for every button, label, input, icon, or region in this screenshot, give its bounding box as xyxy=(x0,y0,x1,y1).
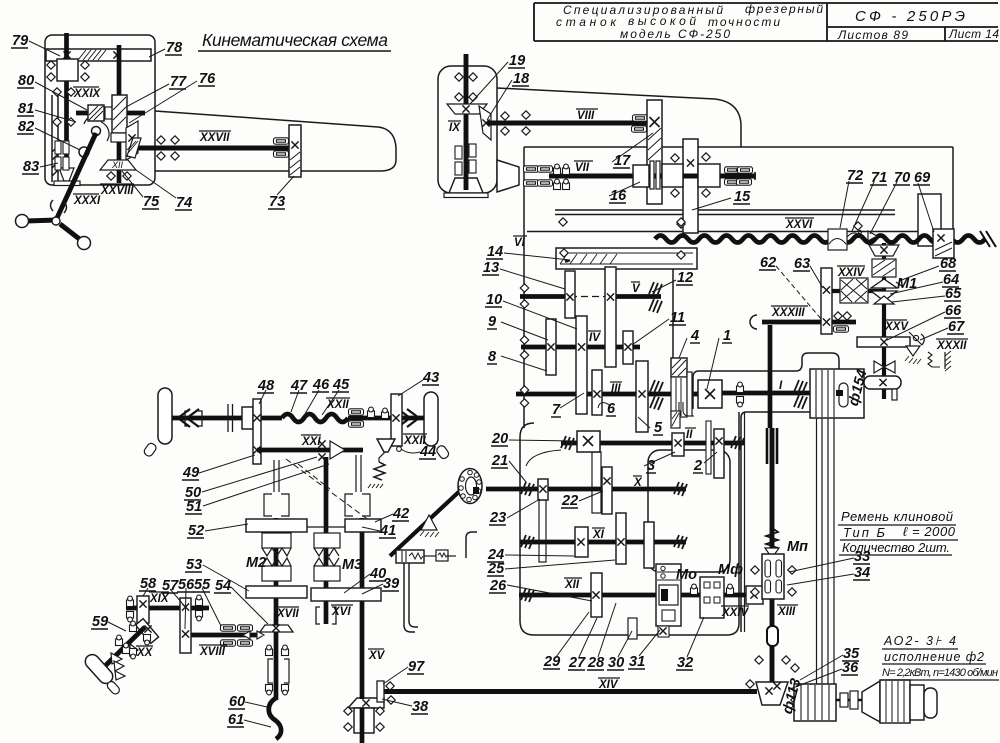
svg-text:XXXIII: XXXIII xyxy=(771,307,805,319)
svg-text:XIV: XIV xyxy=(598,679,619,691)
svg-text:22: 22 xyxy=(561,493,578,509)
svg-text:VI: VI xyxy=(514,237,526,249)
svg-text:XXIV: XXIV xyxy=(837,267,866,279)
svg-text:47: 47 xyxy=(290,378,308,394)
svg-text:97: 97 xyxy=(408,659,425,675)
svg-text:80: 80 xyxy=(18,73,34,89)
svg-text:XI: XI xyxy=(592,529,605,541)
svg-text:28: 28 xyxy=(587,655,605,671)
svg-text:58: 58 xyxy=(140,576,157,592)
svg-text:26: 26 xyxy=(489,578,507,594)
svg-text:Тип Б: Тип Б xyxy=(843,525,886,540)
svg-text:45: 45 xyxy=(332,377,350,393)
svg-text:исполнение ф2: исполнение ф2 xyxy=(884,650,984,664)
svg-text:20: 20 xyxy=(491,431,508,447)
svg-text:66: 66 xyxy=(945,303,962,319)
svg-text:VII: VII xyxy=(575,162,590,174)
svg-text:M3: M3 xyxy=(342,557,362,573)
svg-text:XV: XV xyxy=(368,650,386,662)
svg-text:69: 69 xyxy=(914,170,930,186)
svg-text:11: 11 xyxy=(670,310,685,326)
svg-text:65: 65 xyxy=(945,286,962,302)
svg-text:III: III xyxy=(611,383,621,395)
svg-text:XX: XX xyxy=(136,647,154,659)
svg-text:Лист 14: Лист 14 xyxy=(948,27,999,41)
svg-text:12: 12 xyxy=(677,270,693,286)
svg-text:16: 16 xyxy=(610,188,627,204)
svg-text:XVII: XVII xyxy=(276,608,300,620)
svg-text:18: 18 xyxy=(513,71,530,87)
svg-text:59: 59 xyxy=(92,614,108,630)
svg-text:XXXII: XXXII xyxy=(936,340,967,352)
svg-text:XII: XII xyxy=(111,160,124,170)
svg-text:72: 72 xyxy=(847,168,863,184)
svg-text:XXV: XXV xyxy=(884,321,909,333)
svg-text:XVIII: XVIII xyxy=(199,646,226,658)
svg-text:36: 36 xyxy=(842,660,859,676)
svg-text:4: 4 xyxy=(690,328,699,344)
svg-text:56: 56 xyxy=(178,577,195,593)
svg-text:VIII: VIII xyxy=(577,110,595,122)
svg-text:Количество 2шт.: Количество 2шт. xyxy=(842,540,950,555)
svg-text:ℓ = 2000: ℓ = 2000 xyxy=(903,524,956,539)
svg-text:IX: IX xyxy=(449,122,461,134)
svg-text:70: 70 xyxy=(894,170,910,186)
svg-text:Мф: Мф xyxy=(718,562,743,578)
svg-text:1: 1 xyxy=(723,328,731,344)
svg-text:38: 38 xyxy=(412,699,429,715)
svg-text:XIII: XIII xyxy=(777,606,796,618)
svg-text:30: 30 xyxy=(608,655,624,671)
svg-text:V: V xyxy=(632,283,641,295)
svg-text:M1: M1 xyxy=(897,276,917,292)
svg-text:Мп: Мп xyxy=(787,539,808,555)
svg-text:77: 77 xyxy=(170,74,187,90)
svg-text:9: 9 xyxy=(488,314,496,330)
svg-text:XXVIII: XXVIII xyxy=(100,185,134,197)
svg-text:XXII: XXII xyxy=(326,399,350,411)
svg-text:73: 73 xyxy=(269,194,285,210)
svg-text:XII: XII xyxy=(564,579,580,591)
svg-text:34: 34 xyxy=(854,565,870,581)
svg-text:83: 83 xyxy=(23,159,39,175)
svg-text:68: 68 xyxy=(940,256,957,272)
svg-text:XXI: XXI xyxy=(301,436,321,448)
svg-text:62: 62 xyxy=(760,255,776,271)
svg-text:Ремень клиновой: Ремень клиновой xyxy=(841,509,953,524)
svg-text:41: 41 xyxy=(379,523,396,539)
svg-text:2: 2 xyxy=(693,458,702,474)
svg-text:II: II xyxy=(686,429,693,441)
svg-text:XXVI: XXVI xyxy=(785,219,813,231)
svg-text:7: 7 xyxy=(552,402,561,418)
svg-text:74: 74 xyxy=(176,195,192,211)
svg-text:61: 61 xyxy=(228,712,244,728)
svg-text:81: 81 xyxy=(18,101,34,117)
svg-text:13: 13 xyxy=(483,260,499,276)
svg-text:42: 42 xyxy=(392,506,409,522)
svg-text:63: 63 xyxy=(794,256,810,272)
svg-text:СФ - 250РЭ: СФ - 250РЭ xyxy=(855,8,965,25)
svg-text:75: 75 xyxy=(143,194,160,210)
svg-text:54: 54 xyxy=(215,578,231,594)
svg-text:55: 55 xyxy=(194,577,211,593)
svg-text:3: 3 xyxy=(647,458,655,474)
svg-text:71: 71 xyxy=(871,170,887,186)
svg-text:67: 67 xyxy=(948,319,965,335)
svg-text:46: 46 xyxy=(312,377,330,393)
svg-text:6: 6 xyxy=(607,401,616,417)
svg-text:19: 19 xyxy=(509,53,525,69)
svg-text:29: 29 xyxy=(543,654,560,670)
svg-text:15: 15 xyxy=(734,189,751,205)
svg-text:17: 17 xyxy=(614,153,631,169)
svg-text:IV: IV xyxy=(589,332,601,344)
svg-text:фрезерный: фрезерный xyxy=(745,2,823,16)
svg-text:79: 79 xyxy=(12,33,28,49)
svg-text:M2: M2 xyxy=(246,555,266,571)
svg-text:Листов 89: Листов 89 xyxy=(837,28,908,42)
svg-text:23: 23 xyxy=(489,510,506,526)
svg-text:48: 48 xyxy=(257,378,275,394)
svg-text:14: 14 xyxy=(487,244,503,260)
svg-text:модель СФ-250: модель СФ-250 xyxy=(620,27,730,41)
svg-text:XIX: XIX xyxy=(149,593,170,605)
svg-text:43: 43 xyxy=(422,370,439,386)
svg-text:21: 21 xyxy=(491,453,508,469)
svg-text:XXIX: XXIX xyxy=(73,88,102,100)
svg-text:52: 52 xyxy=(188,523,204,539)
svg-text:78: 78 xyxy=(166,40,183,56)
svg-text:76: 76 xyxy=(199,71,216,87)
svg-text:Кинематическая схема: Кинематическая схема xyxy=(202,30,388,50)
svg-text:10: 10 xyxy=(486,292,502,308)
svg-text:XXIV: XXIV xyxy=(721,607,750,619)
svg-text:XVI: XVI xyxy=(331,606,351,618)
svg-text:5: 5 xyxy=(654,420,663,436)
svg-text:8: 8 xyxy=(488,349,497,365)
svg-text:XXXI: XXXI xyxy=(73,195,101,207)
svg-text:N= 2,2кВт, n=1430 об/мин: N= 2,2кВт, n=1430 об/мин xyxy=(882,667,998,679)
svg-text:39: 39 xyxy=(383,576,399,592)
svg-text:82: 82 xyxy=(18,119,34,135)
svg-text:XXVII: XXVII xyxy=(199,132,230,144)
svg-text:X: X xyxy=(633,477,643,489)
svg-text:Мо: Мо xyxy=(676,567,697,583)
svg-text:XXII: XXII xyxy=(403,435,427,447)
svg-text:25: 25 xyxy=(487,561,505,577)
svg-text:60: 60 xyxy=(229,694,245,710)
svg-text:49: 49 xyxy=(182,465,199,481)
svg-text:51: 51 xyxy=(186,499,202,515)
svg-text:53: 53 xyxy=(186,557,202,573)
svg-text:27: 27 xyxy=(568,655,586,671)
svg-text:31: 31 xyxy=(629,654,645,670)
svg-text:32: 32 xyxy=(677,655,693,671)
